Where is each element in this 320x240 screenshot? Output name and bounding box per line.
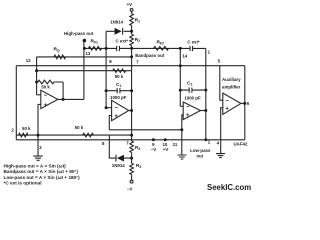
resistor 50k A1 feedback bbox=[38, 80, 54, 84]
svg-text:50 k: 50 k bbox=[41, 84, 50, 89]
node L1-14 bbox=[179, 47, 182, 50]
node pin10 bbox=[164, 138, 167, 141]
node Lfb-12 bbox=[35, 69, 38, 72]
node fb50k bbox=[35, 81, 38, 84]
svg-text:+V: +V bbox=[163, 147, 169, 152]
wire bottom diode branch bbox=[109, 135, 131, 158]
node bus2-14 bbox=[179, 64, 182, 67]
wire bus2 long loop line bbox=[16, 65, 245, 67]
wire Lbot bottom supply rail bbox=[16, 139, 245, 141]
wire A1 output line bbox=[58, 98, 84, 100]
wire A3 +in loop and ground stub pin11 bbox=[182, 115, 183, 155]
svg-text:C ext*: C ext* bbox=[187, 40, 200, 45]
svg-text:*C ext is optional: *C ext is optional bbox=[4, 181, 42, 186]
svg-text:−V: −V bbox=[151, 147, 157, 152]
svg-text:13: 13 bbox=[85, 51, 90, 56]
wire A1 +in stub bbox=[38, 103, 41, 105]
op-amp A2 bbox=[112, 100, 129, 120]
svg-text:11: 11 bbox=[173, 142, 178, 147]
node C2-right bbox=[204, 89, 207, 92]
wire right outer vertical bbox=[244, 66, 246, 140]
svg-text:Bandpass out = A × Sin (ωt + 9: Bandpass out = A × Sin (ωt + 90°) bbox=[4, 169, 79, 174]
ground pin11 bbox=[178, 155, 187, 159]
wire Lfb A1 inverting input to pin7 node bbox=[37, 70, 132, 72]
node bus1-7 bbox=[130, 55, 133, 58]
svg-text:Low-pass: Low-pass bbox=[190, 148, 211, 153]
node Ltop-7 bbox=[130, 134, 133, 137]
capacitor C ext 1 bbox=[117, 46, 120, 51]
svg-text:amplifier: amplifier bbox=[222, 84, 241, 89]
wire A1 -in stub bbox=[37, 94, 41, 96]
svg-text:−V: −V bbox=[127, 187, 133, 192]
wire top diode branch bbox=[106, 30, 132, 32]
op-amp A3 bbox=[183, 102, 200, 120]
node A3out bbox=[204, 109, 207, 112]
wire pin8 vertical (top diode node to A2 -in) bbox=[105, 31, 107, 107]
node LPout-1 bbox=[204, 138, 207, 141]
wire A3 -in stub bbox=[180, 105, 183, 107]
capacitor C ext 2 bbox=[190, 46, 193, 51]
svg-text:+V: +V bbox=[127, 2, 133, 7]
node A1out bbox=[62, 98, 65, 101]
resistor 50k A2 parallel bbox=[113, 69, 126, 73]
resistor RQ bbox=[54, 55, 66, 59]
svg-text:C ext*: C ext* bbox=[116, 39, 129, 44]
svg-text:Bandpass out: Bandpass out bbox=[135, 53, 165, 58]
wire pin1 LP vertical bbox=[205, 48, 207, 139]
wire A2 out stub bbox=[129, 110, 132, 112]
op-amp U1 auxiliary amplifier bbox=[223, 93, 241, 114]
svg-text:+: + bbox=[225, 107, 229, 113]
svg-text:14: 14 bbox=[182, 54, 187, 59]
svg-text:−: − bbox=[225, 98, 229, 104]
wire A3 out stub bbox=[201, 110, 206, 112]
svg-text:+: + bbox=[44, 103, 48, 109]
svg-text:+: + bbox=[186, 113, 190, 119]
node C1-right bbox=[130, 89, 133, 92]
ground pin4 bbox=[216, 154, 225, 158]
wire L1 top feedback line HP->LP bbox=[84, 47, 206, 49]
wire pin5 vertical aux -in bbox=[220, 66, 223, 101]
svg-text:12: 12 bbox=[26, 58, 31, 63]
op-amp A1 bbox=[41, 90, 58, 108]
node A2out bbox=[130, 109, 133, 112]
wire A1 feedback top bbox=[54, 82, 63, 99]
node High-pass out terminal bbox=[83, 39, 87, 43]
wire A1 +in vertical to ground node bbox=[37, 104, 39, 156]
wire Lplus noninverting rail A2/A3 bbox=[109, 129, 182, 131]
wire aux out stub bbox=[241, 102, 245, 104]
node R1R2-diode bbox=[130, 30, 133, 33]
svg-text:1N914: 1N914 bbox=[110, 20, 123, 25]
svg-text:High-pass out: High-pass out bbox=[64, 31, 94, 36]
diode 1N914 top bbox=[115, 28, 122, 35]
wire A2 +in loop bbox=[109, 116, 111, 130]
resistor R3 bbox=[130, 163, 134, 174]
wire bus1 pin12 to BP node bbox=[37, 56, 132, 58]
wire A2 -in stub bbox=[106, 107, 112, 109]
resistor R4 bbox=[130, 141, 134, 153]
node diode-R3R4 bbox=[130, 157, 133, 160]
wire left outer vertical bbox=[15, 66, 17, 140]
wire C2 connections bbox=[180, 89, 206, 91]
wire pin14 vertical (A3 -in node) bbox=[179, 48, 181, 106]
wire C1 connections bbox=[106, 90, 132, 92]
svg-text:50 k: 50 k bbox=[75, 125, 84, 130]
node A2-in bbox=[105, 106, 108, 109]
svg-text:Auxiliary: Auxiliary bbox=[222, 77, 241, 82]
svg-text:1000 pF: 1000 pF bbox=[110, 95, 127, 100]
node gnd3 bbox=[37, 134, 40, 137]
node C1-left bbox=[105, 89, 108, 92]
node L1-8 bbox=[105, 47, 108, 50]
diode 1N914 bottom bbox=[117, 155, 124, 162]
-V supply terminal bbox=[130, 180, 133, 183]
node plus-11 bbox=[180, 128, 183, 131]
wire pin12/A1 inverting vertical bbox=[36, 57, 38, 95]
resistor R1 bbox=[130, 14, 134, 26]
svg-text:−: − bbox=[44, 93, 48, 99]
wire Ltop ground/input rail bbox=[16, 134, 131, 136]
svg-text:50 k: 50 k bbox=[22, 126, 31, 131]
wire pin13 HP vertical bbox=[83, 41, 85, 100]
resistor 50k bottom middle bbox=[83, 133, 94, 137]
svg-text:Low-pass out = A × Sin (ωt + 1: Low-pass out = A × Sin (ωt + 180°) bbox=[4, 175, 81, 180]
node L1-13 bbox=[83, 47, 86, 50]
svg-text:High-pass out = A × Sin (ωt): High-pass out = A × Sin (ωt) bbox=[4, 163, 67, 168]
svg-text:1N914: 1N914 bbox=[112, 163, 125, 168]
svg-text:SeekIC.com: SeekIC.com bbox=[207, 183, 251, 192]
capacitor C2 1000pF bbox=[189, 88, 192, 93]
capacitor C1 1000pF bbox=[117, 88, 120, 93]
svg-text:−: − bbox=[114, 106, 118, 112]
svg-text:−: − bbox=[186, 105, 190, 111]
node auxout-6 bbox=[243, 102, 246, 105]
resistor RF2 bbox=[154, 47, 169, 51]
svg-text:UAF42: UAF42 bbox=[234, 142, 248, 147]
wire main vertical x131.6 +V to -V bbox=[131, 11, 133, 180]
node L1-7 bbox=[130, 47, 133, 50]
svg-text:50 k: 50 k bbox=[115, 74, 124, 79]
node C2-left bbox=[179, 89, 182, 92]
resistor R2 bbox=[130, 34, 134, 45]
resistor RF1 bbox=[89, 47, 102, 51]
+V supply terminal bbox=[130, 9, 133, 12]
svg-text:+: + bbox=[114, 114, 118, 120]
svg-text:out: out bbox=[196, 153, 203, 158]
wire aux +in to ground pin4 bbox=[221, 108, 223, 154]
node pin9 bbox=[152, 138, 155, 141]
svg-text:1000 pF: 1000 pF bbox=[184, 95, 201, 100]
ground pin3 bbox=[33, 156, 43, 160]
resistor 50k input left bbox=[19, 133, 28, 137]
